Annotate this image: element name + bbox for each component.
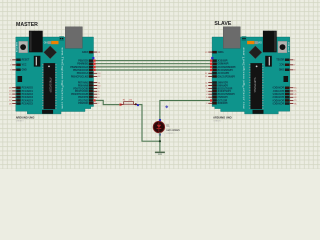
svg-text:<TEXT>: <TEXT>: [16, 120, 25, 123]
grid background: [0, 0, 320, 169]
purple origin diamond: [165, 105, 168, 108]
svg-text:SLAVE: SLAVE: [214, 21, 231, 27]
svg-text:<TEXT>: <TEXT>: [166, 132, 175, 135]
arduino U1 MASTER: [9, 27, 101, 114]
wire master PD1 to resistor: [93, 100, 120, 104]
arduino U2 SLAVE (mirrored): [204, 27, 296, 114]
svg-text:ARDUINO UNO: ARDUINO UNO: [16, 115, 35, 119]
junction node: [159, 140, 161, 142]
wire slave PD1 to LED anode: [160, 101, 212, 122]
resistor R1: [119, 104, 121, 106]
red state squares on bus wires: [93, 60, 95, 62]
svg-text:<TEXT>: <TEXT>: [213, 120, 222, 123]
blue state square LED cathode: [159, 134, 161, 136]
svg-text:LED-GREEN: LED-GREEN: [166, 130, 180, 132]
SPI bus wires (SCK MISO MOSI SS): [93, 60, 212, 62]
svg-text:ARDUINO UNO: ARDUINO UNO: [213, 115, 232, 119]
svg-text:MASTER: MASTER: [16, 22, 38, 28]
LED D1: [153, 121, 164, 132]
red state square master PD1: [93, 99, 95, 101]
blue state square LED anode: [159, 119, 161, 121]
wire LED cathode to ground: [159, 133, 161, 152]
red state square slave PD1: [210, 99, 212, 101]
wire resistor to LED cathode node: [139, 105, 160, 142]
ground symbol: [155, 152, 165, 154]
